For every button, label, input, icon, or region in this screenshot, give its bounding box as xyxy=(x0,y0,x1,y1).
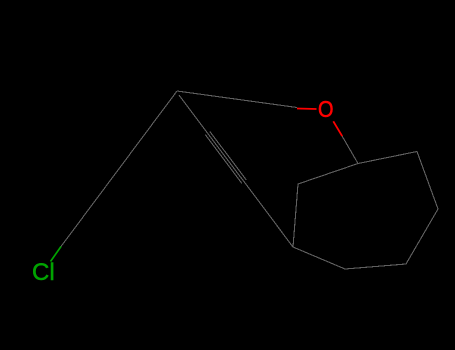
bond chlorine half (green) xyxy=(51,247,62,262)
ring cycloheptane xyxy=(293,152,438,270)
wire chain Cl to apex xyxy=(61,91,177,247)
bond alkyne chain ring to terminal methyl xyxy=(179,95,293,247)
svg-text:Cl: Cl xyxy=(32,259,55,286)
bond alkyne parallel lower-left xyxy=(205,135,242,184)
bond O to ring (red half) xyxy=(333,121,342,136)
bond O to ring (gray half) xyxy=(342,136,358,163)
wire apex to oxygen (gray half) xyxy=(177,91,297,108)
bond alkyne parallel upper-right xyxy=(210,131,247,180)
wire oxygen half (red) xyxy=(297,108,317,111)
svg-text:O: O xyxy=(318,96,334,122)
